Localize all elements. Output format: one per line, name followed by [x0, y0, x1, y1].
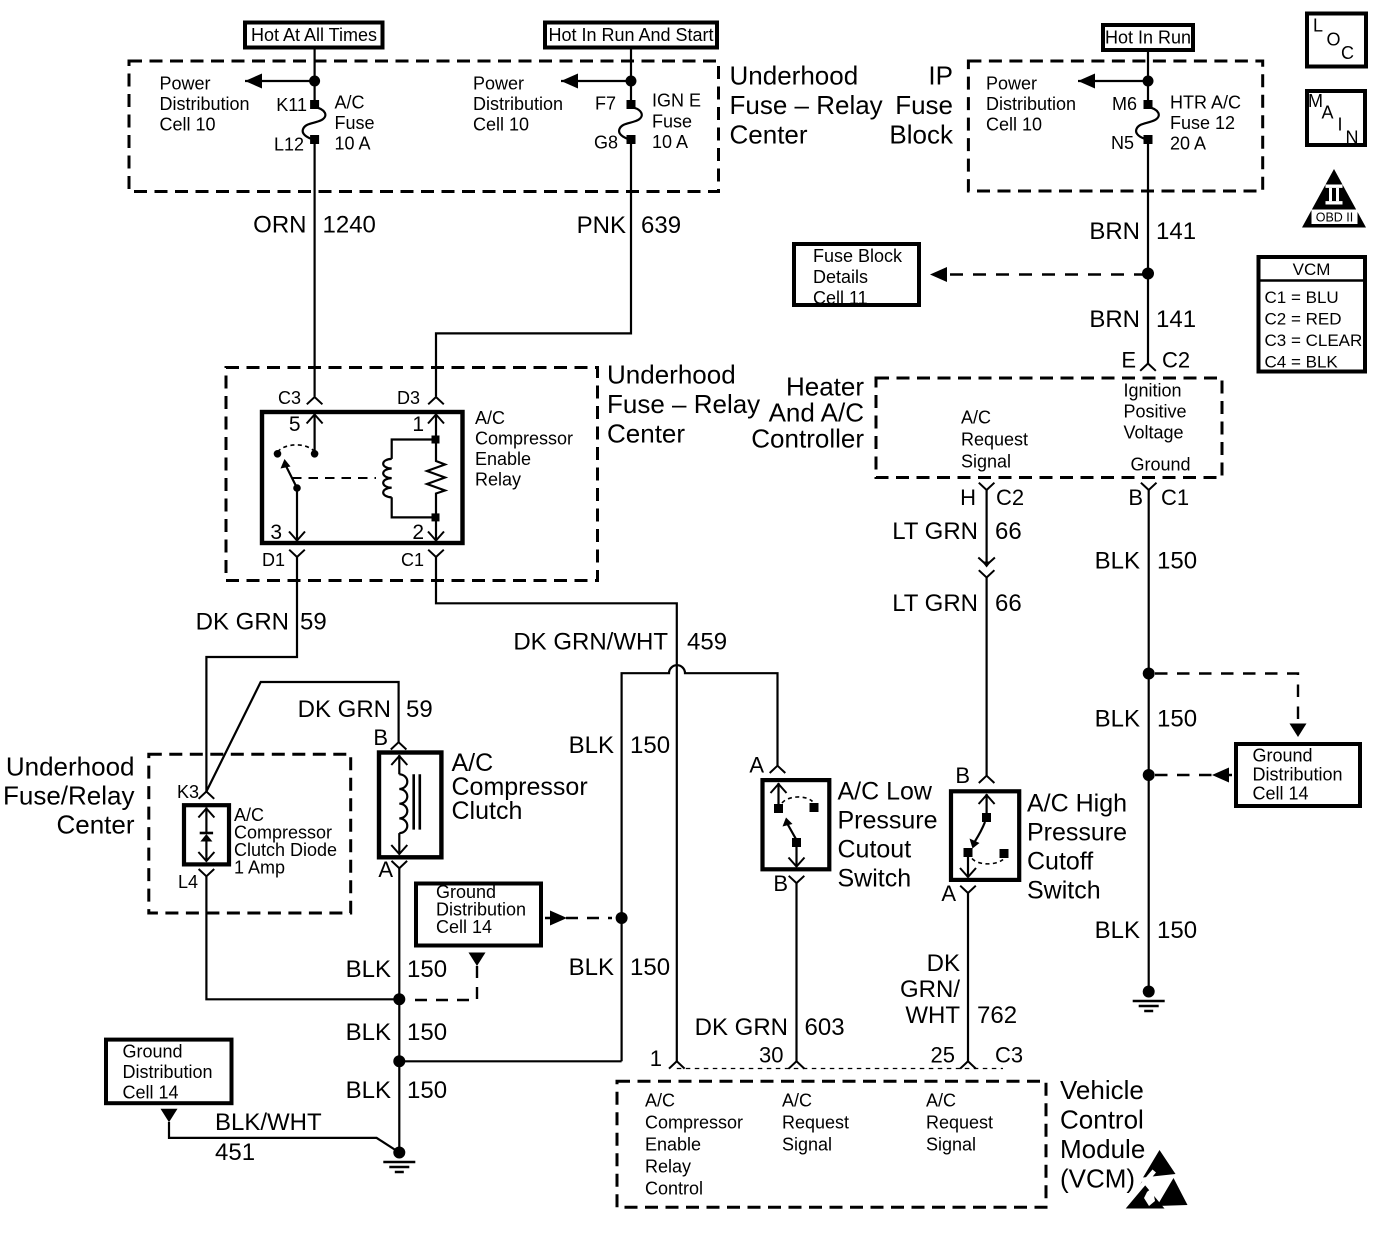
relay movable arm with arrowhead [286, 466, 297, 488]
junction to ground distribution (lower) [1143, 769, 1155, 781]
svg-text:Fuse – Relay: Fuse – Relay [607, 389, 760, 419]
ESD sensitive symbol [1118, 1150, 1188, 1214]
svg-text:Controller: Controller [751, 424, 864, 454]
relay pin 1 lead with up arrow [435, 414, 437, 438]
terminal B of connector C1 [1141, 483, 1157, 490]
MAIN symbol box [1307, 91, 1365, 145]
dashed outline Heater And A/C Controller [876, 378, 1222, 478]
svg-text:Distribution: Distribution [123, 1062, 213, 1082]
terminal H of connector C2 [979, 483, 995, 490]
relay coil [392, 440, 436, 459]
lower fixed contact [964, 848, 973, 857]
svg-text:Center: Center [730, 120, 808, 150]
svg-text:C2: C2 [996, 485, 1024, 510]
svg-text:N5: N5 [1111, 133, 1134, 153]
svg-text:IP: IP [928, 61, 953, 91]
svg-text:Cell 11: Cell 11 [813, 288, 868, 308]
wire BLK 150 ground branch from low pressure switch A (with hop over 459) [622, 665, 778, 1061]
svg-text:C3: C3 [278, 388, 301, 408]
svg-text:Underhood: Underhood [730, 61, 859, 91]
svg-text:C1: C1 [1161, 485, 1189, 510]
wire BLK 150 from clutch A down to splice S1 [398, 868, 400, 999]
svg-text:BLK: BLK [1095, 548, 1140, 575]
wire ORN stub from Hot At All Times box into underhood fuse-relay center [314, 50, 316, 103]
diode internal lead with up arrow [205, 808, 207, 834]
svg-text:BLK: BLK [569, 954, 614, 981]
svg-text:Power: Power [160, 74, 211, 94]
svg-text:1240: 1240 [323, 212, 376, 239]
svg-text:Pressure: Pressure [838, 807, 938, 835]
wire BLK/WHT 451 from box stub to ground junction [169, 1122, 399, 1153]
svg-text:1: 1 [650, 1046, 662, 1071]
svg-text:E: E [1121, 348, 1136, 373]
svg-text:Fuse – Relay: Fuse – Relay [730, 90, 883, 120]
svg-text:D1: D1 [262, 550, 285, 570]
relay fixed contact (pin 5 side) [311, 450, 319, 458]
svg-text:Center: Center [56, 810, 134, 840]
note box Ground Distribution Cell 14 (right) [1236, 744, 1360, 806]
svg-text:Cell 10: Cell 10 [986, 115, 1042, 135]
svg-text:N: N [1346, 128, 1359, 148]
svg-text:Switch: Switch [838, 865, 912, 893]
svg-text:Underhood: Underhood [607, 360, 736, 390]
svg-text:BLK: BLK [346, 1077, 391, 1104]
wire DK GRN 603 from switch B to VCM pin 30 [795, 883, 797, 1061]
svg-text:Signal: Signal [782, 1135, 832, 1155]
diode box D1 A/C Compressor Clutch Diode [184, 805, 229, 864]
svg-text:Cell 14: Cell 14 [1253, 784, 1309, 804]
svg-text:Switch: Switch [1027, 877, 1101, 905]
wire DK GRN 59 branch: diagonal from K3 up to clutch B [206, 682, 398, 792]
dashed arc between contacts [782, 797, 813, 803]
svg-text:Clutch: Clutch [452, 797, 523, 825]
svg-text:A/C: A/C [475, 408, 505, 428]
arrow to Fuse Block Details [930, 267, 947, 282]
dashed reference wire to Fuse Block Details [950, 273, 1143, 275]
pin 25 of VCM, connector C3 [960, 1061, 976, 1068]
dashed arc between contacts [972, 859, 1003, 864]
svg-text:B: B [773, 871, 788, 896]
svg-text:K11: K11 [276, 95, 307, 115]
svg-text:M6: M6 [1112, 94, 1137, 114]
svg-text:ORN: ORN [253, 212, 306, 239]
svg-text:Ignition: Ignition [1124, 381, 1182, 401]
pin 30 of VCM [789, 1061, 805, 1068]
dashed outline Underhood Fuse-Relay Center (relay) [226, 368, 598, 581]
relay arm pivot [293, 484, 301, 492]
inline connector on LT GRN 66 [978, 558, 995, 566]
clutch box M1 A/C Compressor Clutch [379, 753, 441, 858]
terminal B of high pressure switch [979, 776, 995, 783]
relay pin 2 lead with down arrow [435, 517, 437, 541]
fixed contact left [774, 804, 783, 813]
wire to power distribution arrow [1078, 80, 1148, 82]
LOC symbol box [1307, 14, 1366, 67]
arrow to Power Distribution Cell 10 [245, 74, 262, 89]
terminal C3 of relay [307, 397, 323, 404]
wire to power distribution arrow [561, 80, 631, 82]
svg-text:DK GRN: DK GRN [695, 1014, 788, 1041]
dashed reference wire to Ground Distribution Cell 14 [1155, 674, 1298, 724]
junction S2 [393, 1055, 405, 1067]
svg-text:HTR A/C: HTR A/C [1170, 93, 1241, 113]
upper contact [982, 813, 991, 822]
svg-text:762: 762 [977, 1002, 1017, 1029]
svg-text:Power: Power [473, 74, 524, 94]
terminal A of high pressure switch [960, 886, 976, 893]
svg-text:Pressure: Pressure [1027, 819, 1127, 847]
svg-text:DK GRN: DK GRN [298, 696, 391, 723]
wire DK GRN 59 from relay D1 down, left to K3 [206, 557, 297, 792]
wire from S2 right to BLK riser [399, 1060, 621, 1062]
arrow to Power Distribution Cell 10 [1078, 74, 1095, 89]
svg-text:C4 = BLK: C4 = BLK [1265, 353, 1339, 372]
dashed outline IP Fuse Block [968, 61, 1262, 191]
svg-text:66: 66 [995, 590, 1022, 617]
wire LT GRN 66 upper segment from controller H [985, 490, 987, 563]
fuse F3 HTR A/C Fuse 12 20A [1136, 100, 1159, 144]
svg-text:Underhood: Underhood [6, 752, 135, 782]
right fixed contact [1000, 849, 1009, 858]
note box Ground Distribution Cell 14 (left) [106, 1040, 232, 1104]
wire LT GRN 66 lower segment to high pressure switch B [985, 578, 987, 776]
svg-text:Ground: Ground [1253, 746, 1313, 766]
svg-text:150: 150 [407, 956, 447, 983]
svg-text:LT GRN: LT GRN [892, 590, 978, 617]
svg-text:Ground: Ground [1131, 455, 1191, 475]
svg-text:A: A [1322, 103, 1334, 123]
svg-text:C3 = CLEAR: C3 = CLEAR [1265, 331, 1363, 350]
svg-text:Fuse: Fuse [652, 112, 692, 132]
svg-text:3: 3 [270, 521, 282, 544]
wire DK GRN/WHT 762 from switch A to VCM pin 25 [967, 893, 969, 1061]
svg-text:Fuse 12: Fuse 12 [1170, 113, 1235, 133]
relay pin 5 lead with up arrow [314, 414, 316, 454]
svg-text:Compressor: Compressor [475, 429, 573, 449]
svg-text:BLK: BLK [346, 956, 391, 983]
svg-text:L12: L12 [274, 135, 304, 155]
svg-text:Request: Request [961, 430, 1028, 450]
svg-text:PNK: PNK [577, 212, 626, 239]
svg-text:5: 5 [289, 413, 301, 436]
svg-text:BLK/WHT: BLK/WHT [215, 1109, 322, 1136]
svg-text:Hot At All Times: Hot At All Times [251, 25, 377, 45]
svg-text:A: A [378, 857, 393, 882]
svg-text:A/C: A/C [961, 408, 991, 428]
triangle stub into Ground Distribution box [1290, 724, 1307, 738]
svg-text:10 A: 10 A [652, 132, 688, 152]
svg-text:Center: Center [607, 419, 685, 449]
junction on BRN feed [1143, 76, 1154, 87]
switch box S2 A/C High Pressure Cutoff Switch [951, 791, 1019, 880]
svg-text:BLK: BLK [569, 732, 614, 759]
svg-text:Enable: Enable [475, 449, 531, 469]
dashed reference wire with arrow to Ground Distribution box [1155, 774, 1232, 776]
relay fixed contact (arm rest) [274, 450, 282, 458]
junction to fuse block details reference [1142, 268, 1154, 280]
svg-text:Control: Control [645, 1179, 703, 1199]
fixed contact right [810, 803, 819, 812]
terminal D3 of relay [428, 397, 444, 404]
triangle stub below left Ground Distribution box [161, 1109, 178, 1123]
wire BRN stub from box to fuse [1147, 50, 1149, 102]
svg-text:Distribution: Distribution [160, 94, 250, 114]
wire DK GRN/WHT 459 from relay C1 down to VCM pin 1 [436, 557, 677, 1061]
switch box S1 A/C Low Pressure Cutout Switch [763, 780, 830, 869]
clutch plates (two parallel bars) [414, 774, 420, 829]
svg-text:G8: G8 [594, 133, 618, 153]
svg-text:BRN: BRN [1089, 306, 1140, 333]
arm contact [792, 838, 801, 847]
svg-text:150: 150 [1157, 917, 1197, 944]
fuse F2 IGN E Fuse 10A [619, 100, 642, 144]
dashed reference wire with right arrow to BLK junction [545, 917, 612, 919]
ground G401 [1133, 986, 1165, 1012]
svg-text:C3: C3 [995, 1043, 1023, 1068]
relay internal dashed actuator link [292, 477, 376, 479]
svg-text:Cell 10: Cell 10 [160, 115, 216, 135]
svg-text:A/C: A/C [335, 93, 365, 113]
terminal C1 of relay [428, 550, 444, 557]
svg-text:I: I [1338, 115, 1343, 135]
svg-text:O: O [1327, 30, 1341, 50]
svg-text:C: C [1341, 43, 1354, 63]
svg-text:C2 = RED: C2 = RED [1265, 310, 1342, 329]
svg-text:Distribution: Distribution [986, 94, 1076, 114]
svg-text:A/C: A/C [926, 1091, 956, 1111]
svg-text:639: 639 [641, 212, 681, 239]
svg-text:Positive: Positive [1124, 402, 1187, 422]
svg-text:30: 30 [759, 1043, 783, 1068]
svg-text:Vehicle: Vehicle [1060, 1075, 1144, 1105]
svg-text:C1 = BLU: C1 = BLU [1265, 288, 1339, 307]
switch lead with up arrow [985, 794, 987, 817]
svg-text:B: B [373, 725, 388, 750]
svg-text:150: 150 [1157, 706, 1197, 733]
junction on PNK feed [626, 76, 637, 87]
svg-text:150: 150 [407, 1019, 447, 1046]
switch lead with down arrow [967, 857, 969, 878]
splice S1 junction [393, 993, 405, 1005]
svg-text:150: 150 [1157, 548, 1197, 575]
wire BLK 150 from controller B to ground [1148, 490, 1150, 992]
svg-text:150: 150 [407, 1077, 447, 1104]
wire BLK 150 splice to lower junction [398, 999, 400, 1152]
relay box U1 A/C Compressor Enable Relay [262, 412, 463, 543]
svg-text:C1: C1 [401, 550, 424, 570]
svg-text:Hot In Run: Hot In Run [1105, 28, 1191, 48]
svg-text:Distribution: Distribution [473, 94, 563, 114]
dashed outline Underhood Fuse/Relay Center (diode) [149, 754, 351, 913]
terminal K3 of diode [199, 792, 215, 799]
svg-text:Cell 14: Cell 14 [123, 1083, 179, 1103]
svg-text:A: A [749, 753, 764, 778]
clutch coil [399, 774, 407, 833]
svg-text:Signal: Signal [961, 452, 1011, 472]
label box "Hot In Run And Start" [545, 23, 717, 48]
svg-text:Cell 14: Cell 14 [436, 917, 492, 937]
svg-text:Module: Module [1060, 1134, 1145, 1164]
svg-text:H: H [960, 485, 976, 510]
svg-text:F7: F7 [595, 94, 616, 114]
note box Ground Distribution Cell 14 (mid) [416, 884, 541, 946]
movable arm with arrowhead toward left contact [788, 824, 797, 840]
svg-text:Power: Power [986, 74, 1037, 94]
svg-text:Cutout: Cutout [838, 836, 912, 864]
svg-text:Enable: Enable [645, 1135, 701, 1155]
svg-text:(VCM): (VCM) [1060, 1164, 1135, 1194]
svg-text:BLK: BLK [1095, 917, 1140, 944]
svg-text:DK: DK [927, 950, 960, 977]
svg-text:Fuse: Fuse [335, 113, 375, 133]
svg-text:IGN E: IGN E [652, 91, 701, 111]
diode element (cathode bar + anode triangle) [200, 832, 213, 835]
svg-text:10 A: 10 A [335, 134, 371, 154]
svg-text:A/C High: A/C High [1027, 790, 1127, 818]
svg-text:L4: L4 [178, 872, 198, 892]
triangle stub below mid Ground Distribution box [469, 953, 486, 967]
svg-text:BLK: BLK [346, 1019, 391, 1046]
svg-text:Fuse/Relay: Fuse/Relay [3, 781, 135, 811]
svg-text:Relay: Relay [645, 1157, 691, 1177]
svg-text:BLK: BLK [1095, 706, 1140, 733]
svg-text:Block: Block [889, 120, 954, 150]
svg-text:59: 59 [406, 696, 433, 723]
svg-text:L: L [1313, 16, 1323, 36]
svg-text:1 Amp: 1 Amp [234, 858, 285, 878]
VCM internal dashed connector line [677, 1068, 1003, 1070]
wire ORN 1240 from fuse L12 down to relay C3 [314, 144, 316, 396]
switch lead with down arrow [795, 847, 797, 867]
label box "Hot At All Times" [245, 23, 383, 48]
fuse F1 A/C Fuse 10A [303, 100, 326, 144]
relay resistor (in parallel with coil) [427, 439, 445, 517]
svg-text:Signal: Signal [926, 1135, 976, 1155]
terminal A of clutch [392, 861, 408, 868]
svg-text:Control: Control [1060, 1105, 1144, 1135]
svg-text:Request: Request [782, 1113, 849, 1133]
svg-text:603: 603 [805, 1014, 845, 1041]
svg-text:C2: C2 [1162, 348, 1190, 373]
svg-text:Ground: Ground [123, 1042, 183, 1062]
svg-text:OBD II: OBD II [1316, 211, 1354, 225]
diode internal lead with down arrow [205, 842, 207, 862]
terminal E of connector C2 at controller [1140, 364, 1156, 371]
svg-text:Compressor: Compressor [645, 1113, 743, 1133]
svg-text:Voltage: Voltage [1124, 423, 1184, 443]
wire BRN 141 from fuse N5 down to controller E C2 [1147, 144, 1149, 364]
svg-text:B: B [955, 763, 970, 788]
svg-text:Cell 10: Cell 10 [473, 115, 529, 135]
svg-text:A/C: A/C [645, 1091, 675, 1111]
clutch internal lead with down arrow [398, 833, 400, 854]
svg-text:VCM: VCM [1293, 260, 1331, 279]
svg-text:59: 59 [300, 609, 327, 636]
VCM connector color legend box [1259, 257, 1366, 372]
pin 1 of VCM [669, 1061, 685, 1068]
note box Fuse Block Details Cell 11 [794, 244, 919, 305]
svg-text:459: 459 [687, 629, 727, 656]
terminal L4 of diode [199, 869, 215, 876]
wire PNK stub from box to fuse [630, 50, 632, 103]
svg-text:150: 150 [630, 954, 670, 981]
relay pin 3 lead with down arrow [296, 488, 298, 541]
OBD II symbol [1302, 169, 1366, 228]
switch lead with up arrow [777, 783, 779, 808]
svg-text:141: 141 [1156, 218, 1196, 245]
svg-text:A/C: A/C [782, 1091, 812, 1111]
svg-text:DK GRN/WHT: DK GRN/WHT [513, 629, 668, 656]
label box "Hot In Run" [1103, 25, 1193, 50]
svg-text:Hot In Run And Start: Hot In Run And Start [548, 25, 713, 45]
svg-text:DK GRN: DK GRN [196, 609, 289, 636]
svg-text:WHT: WHT [905, 1002, 960, 1029]
movable arm with arrowhead toward lower contact [975, 822, 986, 842]
svg-text:2: 2 [412, 521, 424, 544]
junction on BLK 150 vertical (mid) [616, 912, 628, 924]
svg-text:D3: D3 [397, 388, 420, 408]
relay coil contact squares [432, 436, 440, 444]
terminal B of low pressure switch [789, 876, 805, 883]
svg-text:Distribution: Distribution [1253, 765, 1343, 785]
wire BLK from L4 down and right to splice [206, 876, 399, 999]
ground G101 with junction dot [383, 1147, 415, 1173]
svg-text:141: 141 [1156, 306, 1196, 333]
dashed outline Underhood Fuse-Relay Center (top) [129, 61, 719, 192]
svg-text:LT GRN: LT GRN [892, 518, 978, 545]
svg-text:20 A: 20 A [1170, 134, 1206, 154]
svg-text:Details: Details [813, 267, 868, 287]
svg-text:B: B [1128, 485, 1143, 510]
wire to power distribution arrow [245, 80, 315, 82]
terminal A of low pressure switch [770, 766, 786, 773]
svg-text:A/C Low: A/C Low [838, 778, 933, 806]
svg-text:Fuse Block: Fuse Block [813, 246, 903, 266]
svg-text:25: 25 [931, 1043, 955, 1068]
svg-text:GRN/: GRN/ [900, 976, 960, 1003]
svg-text:BRN: BRN [1089, 218, 1140, 245]
svg-text:66: 66 [995, 518, 1022, 545]
arrow to Power Distribution Cell 10 [561, 74, 578, 89]
junction to ground distribution (upper) [1143, 668, 1155, 680]
dashed reference from triangle to splice S1 [412, 966, 477, 1000]
svg-text:Fuse: Fuse [895, 90, 953, 120]
svg-text:Request: Request [926, 1113, 993, 1133]
svg-text:Cutoff: Cutoff [1027, 848, 1093, 876]
svg-text:1: 1 [412, 413, 424, 436]
dashed arc between relay contacts [278, 445, 315, 452]
svg-text:451: 451 [215, 1139, 255, 1166]
svg-text:K3: K3 [177, 782, 199, 802]
svg-text:Relay: Relay [475, 470, 521, 490]
terminal D1 of relay [289, 550, 305, 557]
clutch internal lead with up arrow [398, 755, 400, 774]
svg-text:150: 150 [630, 732, 670, 759]
wire PNK 639 from fuse G8 down, left, down to relay D3 [436, 144, 631, 396]
svg-text:A: A [941, 881, 956, 906]
junction on ORN feed [309, 76, 320, 87]
dashed outline Vehicle Control Module [617, 1081, 1046, 1207]
terminal B of clutch [391, 742, 407, 749]
